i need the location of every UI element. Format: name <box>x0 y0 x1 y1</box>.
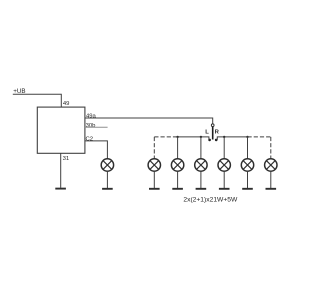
junction lamp E3 <box>200 136 202 138</box>
svg-text:C2: C2 <box>86 136 94 142</box>
svg-text:31: 31 <box>63 156 70 162</box>
svg-text:49: 49 <box>63 101 70 107</box>
lamp E1 <box>148 159 160 171</box>
wire right bus dashed to lamp E6 <box>248 137 271 159</box>
svg-text:30b: 30b <box>86 123 97 129</box>
wire lamp E4 to ground <box>223 171 225 188</box>
ground (lamp E7) <box>102 188 113 190</box>
wire C2 to lamp <box>85 141 108 159</box>
wire lamp E3 to ground <box>200 171 202 188</box>
wire 30b stub <box>85 126 108 128</box>
switch contact L <box>208 139 211 142</box>
lamp E7 (C2 side marker) <box>101 159 113 171</box>
wire lamp E2 to ground <box>177 171 179 188</box>
ground (lamp E1) <box>149 188 160 190</box>
svg-text:R: R <box>215 130 220 136</box>
svg-text:2x(2+1)x21W+5W: 2x(2+1)x21W+5W <box>183 197 238 204</box>
lamp E6 <box>265 159 277 171</box>
lamp E3 <box>195 159 207 171</box>
switch contact R <box>215 139 218 142</box>
wire lamp E5 to ground <box>247 171 249 188</box>
svg-text:L: L <box>205 130 209 136</box>
switch S1 pivot <box>211 124 214 127</box>
lamp E2 <box>171 159 183 171</box>
lamp E4 <box>218 159 230 171</box>
wire to lamp E5 <box>247 137 249 159</box>
wire lamp E7 to ground <box>106 171 108 188</box>
wire to lamp E4 <box>223 137 225 159</box>
lamp E5 <box>241 159 253 171</box>
junction lamp E2 <box>176 136 178 138</box>
junction lamp E5 <box>246 136 248 138</box>
junction lamp E4 <box>223 136 225 138</box>
wire lamp E6 to ground <box>270 171 272 188</box>
wire +UB to pin 49 <box>13 94 62 107</box>
ground (lamp E2) <box>172 188 183 190</box>
ground (pin 31) <box>55 188 66 190</box>
ground (lamp E5) <box>242 188 253 190</box>
wire to lamp E3 <box>200 137 202 159</box>
ground (lamp E4) <box>219 188 230 190</box>
wire lamp E1 to ground <box>153 171 155 188</box>
wire 49a to switch <box>85 118 213 124</box>
wire left bus dashed to lamp E1 <box>154 137 177 159</box>
flasher unit U1 <box>37 107 85 153</box>
wire left bus solid <box>178 137 209 140</box>
wire to lamp E2 <box>177 137 179 159</box>
ground (lamp E3) <box>196 188 207 190</box>
ground (lamp E6) <box>266 188 277 190</box>
wire pin 31 to ground <box>60 153 62 188</box>
wire right bus solid <box>216 137 247 140</box>
switch S1 lever <box>212 127 214 140</box>
